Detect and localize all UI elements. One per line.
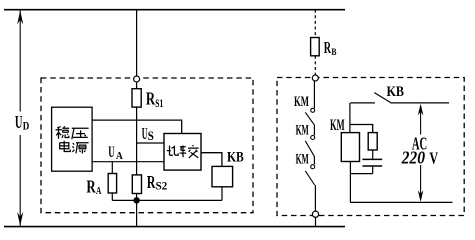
wire supply output line to comparator top [92,120,182,133]
wire UA reference line to comparator [92,161,164,163]
svg-text:A: A [96,186,102,197]
svg-text:A: A [116,151,123,162]
wire RA stub from UA line [111,162,113,174]
wire RC branch top rail [350,125,373,133]
wire top supply bus [4,9,345,11]
svg-text:R: R [147,172,156,192]
node terminal circle on left dashed box [134,76,140,82]
wire RB dashed to right box terminal [314,56,316,75]
node AC label [401,134,438,168]
wire bottom supply bus [4,226,345,228]
svg-text:U: U [108,143,115,161]
svg-text:KM: KM [296,151,309,167]
比较 comparator box U1 [164,134,201,171]
resistor RB [311,38,320,56]
node UD label [15,112,29,132]
wire comparator output to KB box [201,153,222,167]
wire KM2 to KM3 [313,156,315,164]
node KM1 label [294,94,309,110]
relay coil KM box [341,133,359,162]
resistor RS1 [132,89,141,107]
wire KB box bottom stub [221,187,223,201]
resistor RA [108,174,116,194]
node 稳压 text (drawn strokes) [56,126,89,153]
node RS2 label [147,172,168,193]
wire terminal to RS1 [136,82,138,89]
稳压电源 regulated supply box U2 [52,107,93,171]
wire AC top line left segment [350,102,375,104]
svg-text:D: D [23,119,30,133]
wire RA bottom stub [111,193,113,200]
relay KB box [212,166,233,186]
wire left vertical to AC bottom rail [349,174,351,203]
svg-text:S1: S1 [155,96,163,110]
node RB label [324,38,337,58]
wire main wire from top bus to left box terminal [136,10,138,76]
wire left vertical from AC top line to KM coil [349,103,351,133]
node KB output label [227,150,244,166]
node RS1 value label [146,89,163,110]
resistor RB dashed feed from top bus [314,10,316,38]
wire RS2 bottom to junction and bottom bus [136,194,138,227]
wire RS1 to RS2 [136,107,138,175]
wire coil bottom stub [349,162,351,174]
node UD dimension line with arrows [17,11,23,226]
node KM3 label [296,151,309,167]
svg-text:KM: KM [296,122,309,138]
node junction dot [133,197,139,203]
node KM coil label [330,117,345,134]
node right box bottom terminal circle [312,211,318,217]
contact KM2 (normally open) [305,136,314,156]
svg-text:B: B [331,47,337,58]
node KM2 label [296,122,309,138]
wire terminal to contact KM1 [313,81,315,108]
svg-text:S: S [148,129,154,143]
wire capacitor bottom stub [372,166,374,174]
node left dashed enclosure [41,78,253,213]
contact KM1 (normally open) [305,108,314,124]
svg-text:R: R [86,176,96,196]
node right box top terminal circle [312,75,318,81]
resistor (RC snubber) [368,133,377,150]
node US label [142,124,154,143]
svg-text:S2: S2 [156,180,168,192]
wire bottom rail RA to KB [112,199,222,201]
svg-text:KM: KM [294,94,309,110]
capacitor (snubber) [362,159,382,166]
svg-text:V: V [429,148,438,167]
svg-text:U: U [15,112,23,132]
resistor RS2 [132,175,141,194]
wire coil/cap bottom rail [350,173,372,175]
svg-text:KB: KB [387,84,405,100]
node KB contact label [387,84,405,100]
wire KM3 to bottom terminal [314,185,316,211]
node UA label [108,143,123,162]
svg-text:KB: KB [227,150,244,166]
wire resistor to capacitor [372,150,374,159]
wire AC bottom rail [350,201,452,203]
contact KM3 (normally open) [305,165,314,185]
svg-text:KM: KM [330,117,345,134]
svg-text:R: R [324,38,332,57]
node RA label [86,176,101,197]
svg-text:220: 220 [401,147,425,167]
wire KM1 to KM2 [313,124,315,135]
wire bottom terminal to bottom bus [315,217,317,226]
wire AC top line right segment [390,102,449,104]
node right dashed enclosure [277,78,464,216]
contact KB blade (normally closed ac switch) [374,93,390,103]
node AC 220V dimension arrows [418,104,424,202]
wire US sampling line to comparator [137,142,164,144]
node 比较 text (drawn strokes) [167,145,199,158]
